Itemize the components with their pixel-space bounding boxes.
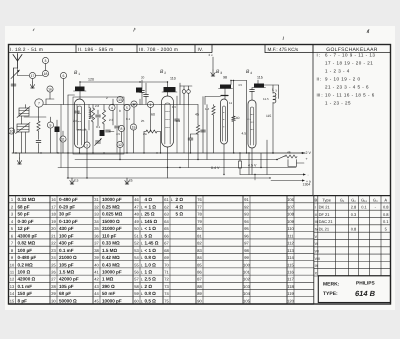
- svg-text:56: 56: [134, 270, 139, 275]
- wire: [25, 132, 27, 153]
- oscillator section outline: [73, 97, 124, 154]
- wire: [183, 93, 185, 104]
- svg-text:62: 62: [164, 204, 169, 209]
- svg-text:4 Ω: 4 Ω: [176, 204, 184, 209]
- svg-text:64: 64: [164, 219, 169, 224]
- svg-text:11.5: 11.5: [263, 97, 269, 101]
- ground mid: [211, 70, 215, 76]
- svg-text:390 Ω: 390 Ω: [102, 284, 115, 289]
- svg-text:18: 18: [44, 72, 48, 76]
- svg-text:145 Ω: 145 Ω: [145, 219, 158, 224]
- wire: [103, 124, 105, 130]
- svg-text:1.0 Ω: 1.0 Ω: [145, 262, 157, 267]
- wire: [112, 99, 114, 105]
- wire: [56, 120, 58, 127]
- svg-text:58: 58: [134, 284, 139, 289]
- capacitor screen bypass: [188, 138, 193, 140]
- svg-text:52: 52: [134, 241, 139, 246]
- wire: [19, 153, 21, 158]
- svg-text:0-20 pF: 0-20 pF: [59, 204, 75, 209]
- capacitor ref 18: [42, 70, 48, 76]
- wire: [50, 128, 52, 153]
- svg-text:1.4: 1.4: [205, 107, 210, 111]
- wire: [25, 105, 27, 109]
- svg-text:90: 90: [197, 298, 202, 303]
- svg-text:65: 65: [164, 226, 169, 231]
- golfschakelaar panel: [312, 45, 314, 196]
- svg-text:66: 66: [164, 233, 169, 238]
- svg-text:3: 3: [45, 59, 47, 63]
- svg-text:0.3: 0.3: [351, 212, 357, 217]
- svg-text:430 pF: 430 pF: [59, 241, 74, 246]
- svg-text:63: 63: [164, 212, 169, 217]
- wire: [17, 126, 29, 128]
- wire: [188, 105, 190, 168]
- wire: [97, 118, 99, 126]
- svg-text:77: 77: [197, 204, 202, 209]
- svg-text:68: 68: [164, 248, 169, 253]
- svg-text:G₂: G₂: [351, 197, 356, 202]
- wire: [19, 112, 29, 114]
- svg-text:2.5 Ω: 2.5 Ω: [145, 277, 157, 282]
- svg-text:VII: VII: [315, 249, 319, 253]
- svg-text:1 - 23 - 25: 1 - 23 - 25: [325, 100, 351, 105]
- wire bottom rail 1: [12, 152, 305, 154]
- svg-text:92: 92: [244, 204, 249, 209]
- svg-text:4: 4: [111, 106, 113, 110]
- capacitor osc 4: [75, 111, 80, 113]
- wire: [17, 128, 29, 130]
- wire: [176, 105, 178, 120]
- wire: [213, 115, 215, 153]
- svg-text:4 Ω: 4 Ω: [145, 197, 153, 202]
- svg-text:16: 16: [51, 197, 56, 202]
- svg-text:DAC 21: DAC 21: [319, 219, 334, 224]
- svg-text:10: 10: [10, 262, 15, 267]
- coil input filter 2: [17, 124, 29, 132]
- wire anode feed B1: [79, 82, 81, 87]
- svg-text:1.5: 1.5: [172, 105, 177, 109]
- pencil mark top-left: [33, 29, 35, 31]
- svg-text:55: 55: [134, 262, 139, 267]
- svg-text:120: 120: [88, 78, 94, 82]
- capacitor ref 4: [109, 104, 115, 110]
- svg-text:7: 7: [38, 101, 40, 105]
- svg-text:41: 41: [94, 270, 99, 275]
- svg-text:I: I: [315, 206, 316, 210]
- svg-text:DK 21: DK 21: [319, 205, 331, 210]
- terminal arrow 2V: [302, 152, 305, 154]
- svg-text:0.8: 0.8: [383, 205, 389, 210]
- svg-text:32: 32: [94, 204, 99, 209]
- svg-text:G₃: G₃: [373, 197, 378, 202]
- svg-text:4.1: 4.1: [247, 117, 252, 121]
- wire: [197, 134, 199, 160]
- IF coil block stage 3: [219, 85, 233, 89]
- svg-text:51: 51: [134, 233, 139, 238]
- svg-text:VI: VI: [315, 242, 318, 246]
- wire: [76, 114, 78, 130]
- wire: [145, 83, 147, 94]
- wire: [260, 153, 262, 168]
- svg-text:II: II: [315, 213, 317, 217]
- wire: [88, 120, 90, 130]
- svg-text:Type: Type: [322, 197, 331, 202]
- svg-text:1.5 MΩ: 1.5 MΩ: [59, 270, 74, 275]
- svg-text:69: 69: [164, 255, 169, 260]
- svg-text:115: 115: [287, 262, 294, 267]
- svg-text:8: 8: [121, 127, 123, 131]
- wire: [183, 105, 185, 154]
- IF coil block stage 1: [74, 87, 87, 92]
- svg-text:1 MΩ: 1 MΩ: [102, 277, 114, 282]
- svg-text:IX: IX: [315, 264, 319, 268]
- svg-text:100 pF: 100 pF: [59, 233, 74, 238]
- wire: [233, 81, 235, 117]
- wire: [213, 105, 215, 107]
- wire: [145, 97, 147, 105]
- tube B3 DAC21: [221, 99, 228, 144]
- wire: [86, 148, 88, 178]
- wire: [79, 148, 81, 153]
- svg-text:0.4 V: 0.4 V: [211, 166, 220, 170]
- svg-text:21000 Ω: 21000 Ω: [59, 255, 77, 260]
- wire: [272, 85, 274, 93]
- wire: [45, 64, 47, 71]
- wire: [63, 79, 65, 105]
- wire anode feed B3: [230, 81, 232, 85]
- svg-text:0.1: 0.1: [383, 219, 389, 224]
- svg-text:28: 28: [51, 284, 56, 289]
- wire: [190, 134, 192, 138]
- svg-text:0.1: 0.1: [176, 119, 181, 123]
- wire if bus: [160, 104, 198, 106]
- svg-text:4.5 V: 4.5 V: [248, 163, 257, 167]
- svg-text:4.5: 4.5: [116, 132, 121, 136]
- svg-text:76: 76: [197, 197, 202, 202]
- svg-text:12 pF: 12 pF: [18, 226, 30, 231]
- capacitor osc 1: [96, 115, 101, 117]
- svg-text:4: 4: [250, 71, 252, 75]
- resistor osc 2: [102, 110, 105, 124]
- svg-text:TYPE:: TYPE:: [323, 291, 338, 297]
- svg-text:24: 24: [51, 255, 56, 260]
- svg-text:105: 105: [243, 298, 250, 303]
- pencil mark top-mid: [282, 37, 285, 40]
- svg-text:0.1 mF: 0.1 mF: [18, 284, 33, 289]
- wire anode feed bus: [80, 81, 140, 83]
- resistor filament dropper: [285, 155, 297, 158]
- svg-text:30: 30: [51, 298, 56, 303]
- svg-text:98: 98: [244, 248, 249, 253]
- svg-text:1304: 1304: [303, 183, 311, 187]
- svg-text:150 pF: 150 pF: [18, 291, 33, 296]
- svg-text:98: 98: [223, 76, 227, 80]
- wire: [246, 81, 248, 154]
- wire: [144, 131, 146, 133]
- svg-text:2.0: 2.0: [73, 119, 78, 123]
- svg-text:9 - 10 19 - 2 0: 9 - 10 19 - 2 0: [325, 76, 361, 81]
- svg-text:5: 5: [126, 106, 128, 110]
- wire anode feed B2: [167, 82, 169, 87]
- svg-text:120: 120: [287, 298, 294, 303]
- svg-text:54: 54: [134, 255, 139, 260]
- svg-text:78: 78: [197, 212, 202, 217]
- svg-text:0.8 Ω: 0.8 Ω: [145, 255, 157, 260]
- capacitor ref 9: [47, 122, 53, 128]
- svg-text:60: 60: [134, 298, 139, 303]
- svg-text:11: 11: [61, 137, 65, 141]
- wire: [248, 153, 250, 175]
- svg-text:20: 20: [141, 76, 145, 80]
- svg-text:A: A: [384, 197, 387, 202]
- svg-text:100 pF: 100 pF: [18, 248, 33, 253]
- antenna: [13, 54, 22, 69]
- wire: [97, 110, 99, 114]
- svg-text:2 V: 2 V: [306, 151, 312, 155]
- svg-text:80: 80: [197, 226, 202, 231]
- svg-text:0-30 pF: 0-30 pF: [18, 219, 34, 224]
- wire: [139, 99, 141, 105]
- svg-text:103: 103: [243, 284, 250, 289]
- junction dots: [15, 152, 16, 153]
- svg-text:34: 34: [94, 219, 99, 224]
- wire: [197, 105, 199, 126]
- svg-text:111: 111: [287, 233, 294, 238]
- wire antenna jog: [14, 67, 18, 69]
- wire: [19, 110, 29, 112]
- svg-text:23: 23: [51, 248, 56, 253]
- svg-text:VIII: VIII: [315, 257, 320, 261]
- svg-text:17 - 18 19 - 20 - 21: 17 - 18 19 - 20 - 21: [325, 60, 373, 65]
- svg-text:85: 85: [197, 262, 202, 267]
- wire: [167, 147, 169, 178]
- wire: [141, 80, 143, 90]
- svg-text:50 mF: 50 mF: [102, 291, 115, 296]
- wire osc bus: [80, 104, 140, 106]
- capacitor avc 2: [144, 95, 149, 97]
- svg-text:12: 12: [118, 143, 122, 147]
- capacitor series antenna: [11, 84, 16, 86]
- padding capacitor block left: [55, 127, 60, 133]
- wire: [112, 111, 114, 125]
- svg-text:40: 40: [236, 116, 240, 120]
- svg-text:61: 61: [164, 197, 169, 202]
- capacitor bypass b3: [201, 130, 206, 132]
- svg-text:71: 71: [164, 270, 169, 275]
- svg-text:1.9: 1.9: [89, 116, 94, 120]
- svg-text:15000 Ω: 15000 Ω: [102, 219, 120, 224]
- svg-text:III: III: [315, 220, 318, 224]
- svg-text:0.1: 0.1: [361, 205, 367, 210]
- svg-text:10: 10: [10, 129, 14, 133]
- wire b3 feed link: [231, 80, 247, 82]
- svg-text:DF 21: DF 21: [319, 212, 331, 217]
- IF coil block stage 2: [162, 87, 177, 92]
- wire: [167, 92, 169, 96]
- wire: [204, 97, 206, 105]
- wire: [157, 131, 161, 133]
- wire: [103, 105, 105, 111]
- svg-text:115: 115: [257, 76, 263, 80]
- svg-text:21: 21: [51, 233, 56, 238]
- svg-text:2 v.: 2 v.: [209, 53, 214, 57]
- svg-text:81: 81: [197, 233, 202, 238]
- capacitor ref 16: [47, 86, 53, 92]
- svg-text:0.025 MΩ: 0.025 MΩ: [102, 212, 123, 217]
- svg-text:0.33 MΩ: 0.33 MΩ: [18, 197, 36, 202]
- svg-text:31: 31: [94, 197, 99, 202]
- capacitor osc 2: [106, 130, 111, 132]
- resistor osc 1: [91, 108, 94, 122]
- svg-text:105 pF: 105 pF: [59, 284, 74, 289]
- capacitor ref 17: [131, 101, 137, 107]
- terminal arrow a: [302, 179, 305, 181]
- resistor 12: [37, 121, 40, 131]
- wire: [62, 142, 64, 153]
- svg-text:430 pF: 430 pF: [59, 226, 74, 231]
- wire: [190, 140, 192, 153]
- wire: [116, 105, 118, 126]
- wire: [92, 122, 94, 153]
- svg-text:109: 109: [287, 219, 294, 224]
- drawing border frame: [9, 45, 391, 305]
- trimmer circle 1: [182, 90, 186, 94]
- capacitor grid B4: [250, 90, 255, 92]
- svg-text:III :: III :: [317, 92, 323, 97]
- MF frequency box: [265, 45, 313, 53]
- svg-text:37: 37: [94, 241, 99, 246]
- wire: [221, 95, 228, 97]
- variable capacitor osc tuning: [95, 139, 102, 146]
- svg-text:96: 96: [244, 233, 249, 238]
- svg-text:25: 25: [51, 262, 56, 267]
- svg-text:33: 33: [94, 212, 99, 217]
- svg-text:1.5 MΩ: 1.5 MΩ: [102, 248, 117, 253]
- svg-text:0.8 Ω: 0.8 Ω: [145, 291, 157, 296]
- svg-text:2.8: 2.8: [95, 104, 100, 108]
- svg-text:42000 Ω: 42000 Ω: [18, 277, 36, 282]
- wire: [266, 140, 268, 175]
- wire: [223, 144, 225, 175]
- resistor det: [212, 106, 215, 115]
- svg-text:6: 6: [63, 74, 65, 78]
- svg-text:PHILIPS: PHILIPS: [356, 281, 375, 287]
- svg-text:88: 88: [197, 284, 202, 289]
- svg-text:86: 86: [197, 270, 202, 275]
- svg-text:12: 12: [10, 277, 15, 282]
- wire: [233, 122, 235, 154]
- wire screen feed: [179, 83, 181, 86]
- svg-text:35: 35: [94, 226, 99, 231]
- spark gap arrester: [11, 70, 20, 79]
- svg-text:89: 89: [197, 291, 202, 296]
- svg-text:+: +: [306, 157, 308, 161]
- wire: [56, 132, 58, 153]
- capacitor ref 3: [84, 142, 90, 148]
- svg-text:16: 16: [48, 87, 52, 91]
- wire: [176, 96, 178, 105]
- wire: [180, 85, 192, 87]
- wire cathode drop: [67, 95, 69, 178]
- svg-text:68 pF: 68 pF: [18, 204, 30, 209]
- potentiometer loop: [288, 160, 297, 167]
- pencil mark top-right: [367, 30, 369, 33]
- svg-text:97: 97: [244, 241, 249, 246]
- wire bottom rail 3: [58, 167, 296, 169]
- wire: [116, 129, 118, 153]
- svg-text:4.5: 4.5: [242, 132, 247, 136]
- capacitor bypass b2: [175, 119, 180, 121]
- svg-text:60: 60: [151, 113, 155, 117]
- svg-text:1: 1: [78, 72, 80, 76]
- svg-text:39: 39: [94, 255, 99, 260]
- wire: [277, 156, 285, 160]
- tube B2 DF21: [162, 96, 174, 147]
- wire: [45, 99, 47, 105]
- svg-text:50 pF: 50 pF: [18, 212, 30, 217]
- capacitor ref 1: [147, 101, 153, 107]
- svg-text:17: 17: [31, 74, 35, 78]
- wire battery rail: [240, 174, 304, 176]
- parts table: [9, 195, 314, 197]
- svg-text:17: 17: [51, 204, 56, 209]
- svg-text:30 pF: 30 pF: [59, 212, 71, 217]
- svg-text:67: 67: [164, 241, 169, 246]
- wire: [38, 131, 40, 140]
- wire: [79, 91, 81, 99]
- svg-text:III. 708 - 2000 m: III. 708 - 2000 m: [139, 47, 178, 53]
- svg-text:72: 72: [164, 277, 169, 282]
- svg-text:< 1 Ω: < 1 Ω: [145, 248, 157, 253]
- coil oscillator: [89, 108, 91, 119]
- svg-text:74: 74: [164, 291, 169, 296]
- svg-text:1.45 Ω: 1.45 Ω: [145, 241, 159, 246]
- terminal arrow minus: [303, 173, 306, 175]
- svg-text:46: 46: [134, 197, 139, 202]
- svg-text:1: 1: [150, 103, 152, 107]
- coupling coil block stage 4: [253, 84, 266, 88]
- wire: [160, 132, 162, 154]
- svg-text:104: 104: [243, 291, 250, 296]
- svg-text:G₁₃: G₁₃: [361, 197, 367, 202]
- svg-text:45: 45: [94, 298, 99, 303]
- svg-text:101: 101: [243, 270, 250, 275]
- svg-text:83: 83: [197, 248, 202, 253]
- resistor avc feed: [232, 116, 235, 122]
- svg-text:95: 95: [244, 226, 249, 231]
- svg-text:100: 100: [243, 262, 250, 267]
- svg-text:42: 42: [94, 277, 99, 282]
- svg-text:0.33 MΩ: 0.33 MΩ: [102, 241, 120, 246]
- wire: [264, 84, 279, 86]
- wire: [297, 162, 305, 164]
- capacitor avc 1: [140, 91, 145, 93]
- wire: [179, 86, 181, 105]
- svg-text:19: 19: [132, 125, 136, 129]
- svg-text:0.8: 0.8: [351, 227, 357, 232]
- svg-text:0.1 mF: 0.1 mF: [59, 248, 74, 253]
- capacitor ref 12: [117, 141, 123, 147]
- tube data table: [314, 195, 391, 197]
- svg-text:40: 40: [94, 262, 99, 267]
- wire: [133, 130, 135, 153]
- wire: [183, 86, 185, 90]
- wire: [239, 153, 241, 161]
- wire: [21, 132, 23, 153]
- wire: [32, 79, 34, 82]
- wire: [17, 68, 19, 76]
